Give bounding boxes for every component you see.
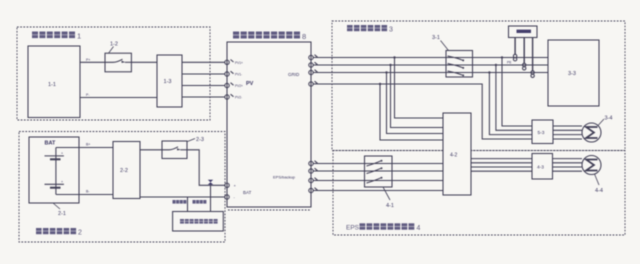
svg-text:P-: P- bbox=[86, 93, 90, 97]
EPS terminal 4 bbox=[309, 188, 318, 193]
PV terminal labels bbox=[235, 61, 243, 100]
current sensor on BAT+ wire bbox=[208, 180, 213, 185]
motor 4-4 bbox=[582, 156, 601, 175]
svg-text:1-1: 1-1 bbox=[48, 82, 56, 88]
tap junction PE to 4-2 bbox=[379, 83, 381, 85]
wire drop L2 to 3-5 bbox=[496, 65, 532, 130]
PV terminal 3 bbox=[225, 83, 234, 88]
battery cell 1 bbox=[45, 152, 64, 160]
wire battery- to 2-2 bbox=[79, 194, 113, 196]
PV simulator block 1-1 bbox=[28, 46, 80, 118]
label 1-2 with leader bbox=[109, 42, 118, 54]
module 4 label EPS应急负载接入模块4 bbox=[346, 223, 421, 232]
label 3-4 with leader bbox=[598, 116, 612, 126]
GRID terminal 1 bbox=[309, 55, 318, 60]
plug pair 2 bbox=[523, 63, 526, 70]
svg-text:+: + bbox=[61, 152, 63, 156]
grid input module 3 dashed box bbox=[332, 21, 625, 151]
svg-text:5-3: 5-3 bbox=[538, 130, 545, 136]
PV terminal 1 bbox=[225, 60, 234, 65]
svg-text:-: - bbox=[234, 195, 236, 200]
svg-text:+: + bbox=[234, 183, 237, 188]
svg-text:2: 2 bbox=[78, 230, 82, 237]
wire switch 2-3 to BAT+ terminal bbox=[187, 150, 225, 186]
EPS terminal 2 bbox=[309, 168, 318, 173]
svg-text:PV1-: PV1- bbox=[235, 73, 242, 77]
label 2-1 with leader bbox=[53, 203, 66, 217]
wire drop L2 to 4-2 bbox=[391, 65, 444, 128]
wire switch 3-1 to 3-3 L2 bbox=[473, 64, 549, 66]
svg-text:BAT: BAT bbox=[243, 190, 252, 195]
label 3-1 with leader bbox=[432, 35, 449, 51]
battery internal wire bbox=[56, 148, 79, 195]
BAT terminal - bbox=[225, 195, 236, 200]
svg-text:4-1: 4-1 bbox=[386, 203, 394, 209]
grid source lead 2 bbox=[523, 38, 525, 64]
svg-text:+: + bbox=[61, 180, 63, 184]
svg-text:EPS/backup: EPS/backup bbox=[273, 175, 296, 180]
DC converter block 1-3 bbox=[157, 55, 182, 107]
label 4-1 with leader bbox=[383, 187, 394, 209]
wire switch 4-1 to 4-2 L2 bbox=[392, 170, 443, 172]
dashed line under inverter bbox=[228, 209, 311, 211]
inverter title 被测光伏储能逆变器8 bbox=[233, 32, 306, 41]
wire 2-2 to switch 2-3 bbox=[140, 149, 162, 151]
svg-text:PV2+: PV2+ bbox=[235, 84, 243, 88]
inverter under test box bbox=[227, 42, 311, 207]
module 3 label 市网接入模块3 bbox=[347, 25, 393, 34]
plug pair 1 bbox=[513, 54, 516, 61]
wire battery+ to 2-2 bbox=[79, 147, 113, 149]
wire GRID L3 to switch 3-1 bbox=[313, 72, 446, 74]
label 电流采样 bbox=[193, 200, 207, 204]
grid source lead 3 bbox=[532, 38, 534, 71]
EPS terminal 3 bbox=[309, 178, 318, 183]
svg-text:3: 3 bbox=[389, 27, 393, 34]
svg-text:2-2: 2-2 bbox=[120, 168, 128, 174]
GRID terminal 4 bbox=[309, 81, 318, 86]
wire drop L1 to 3-5 bbox=[502, 58, 532, 127]
svg-text:PV: PV bbox=[246, 81, 254, 87]
battery pack 2-1 box bbox=[29, 137, 79, 203]
wire GRID L1 to switch 3-1 bbox=[313, 57, 446, 59]
wire 1-3 out 1 bbox=[182, 61, 225, 63]
load distribution block 4-2 bbox=[443, 113, 471, 195]
wire switch 4-1 to 4-2 L1 bbox=[392, 163, 443, 165]
label 2-3 with leader bbox=[188, 137, 204, 143]
svg-text:3-3: 3-3 bbox=[568, 71, 576, 77]
wire GRID L2 to switch 3-1 bbox=[313, 64, 446, 66]
switch 1-2 bbox=[105, 53, 131, 72]
PV input module 1 dashed box bbox=[17, 27, 210, 120]
battery cell 2 bbox=[45, 180, 64, 188]
svg-text:4: 4 bbox=[417, 225, 421, 232]
label 4-4 with leader bbox=[595, 174, 603, 194]
grid simulator block 3-3 bbox=[548, 40, 599, 106]
wire EPS L1 to switch 4-1 bbox=[313, 163, 364, 165]
wire drop PE to 4-2 bbox=[380, 84, 443, 140]
svg-text:3-1: 3-1 bbox=[432, 35, 440, 41]
wire EPS L3 to switch 4-1 bbox=[313, 180, 364, 182]
wire PV+ from 1-1 to switch 1-2 bbox=[80, 61, 105, 63]
wire EPS PE to 4-2 bbox=[313, 190, 443, 192]
svg-text:1-3: 1-3 bbox=[164, 79, 172, 85]
label texture slits bbox=[32, 28, 415, 231]
plug pair 3 bbox=[531, 71, 534, 78]
grid source box bbox=[509, 26, 538, 38]
PV terminal 4 bbox=[225, 94, 234, 99]
wire switch 4-1 to 4-2 L3 bbox=[392, 180, 443, 182]
svg-text:EPS: EPS bbox=[346, 225, 360, 232]
tap junction L1 to 4-2 bbox=[393, 56, 395, 58]
battery input module 2 dashed box bbox=[19, 132, 225, 243]
wires 5-3 to motor 3-4 bbox=[553, 126, 582, 139]
svg-text:PV2-: PV2- bbox=[235, 96, 242, 100]
module 2 label 电池接入模块2 bbox=[36, 228, 82, 237]
svg-text:PV1+: PV1+ bbox=[235, 61, 243, 65]
wire drop L3 to 3-5 bbox=[489, 73, 532, 135]
svg-text:4-3: 4-3 bbox=[537, 165, 544, 171]
EPS load module 4 dashed box bbox=[333, 151, 625, 236]
breaker box 5-3 bbox=[532, 120, 553, 144]
grid source lead 1 bbox=[514, 38, 516, 55]
wire EPS L2 to switch 4-1 bbox=[313, 170, 364, 172]
EPS terminal 1 bbox=[309, 161, 318, 166]
svg-text:P+: P+ bbox=[86, 58, 90, 62]
wire 1-3 out 2 bbox=[182, 73, 225, 75]
switch 2-3 bbox=[162, 141, 187, 159]
wire drop L1 to 4-2 bbox=[395, 58, 444, 119]
svg-text:2-1: 2-1 bbox=[58, 211, 66, 217]
GRID terminal 2 bbox=[309, 62, 318, 67]
switch 4-1 bbox=[365, 156, 393, 187]
current sample tap bbox=[210, 185, 212, 212]
wire GRID PE bbox=[313, 84, 532, 139]
svg-text:4-4: 4-4 bbox=[595, 188, 603, 194]
tap junction L3 to 4-2 bbox=[385, 71, 387, 73]
svg-text:1-2: 1-2 bbox=[110, 42, 118, 48]
grid source label bbox=[517, 30, 532, 33]
wire 1-3 out 4 bbox=[182, 96, 225, 98]
BAT terminal + bbox=[225, 183, 237, 188]
wires 4-2 to 4-3 bbox=[471, 159, 532, 172]
svg-text:PE: PE bbox=[507, 61, 512, 65]
data acquisition box bbox=[173, 212, 224, 232]
switch 3-1 bbox=[446, 51, 473, 78]
wire switch 3-1 to 3-3 L1 bbox=[473, 57, 549, 59]
wire PV- from 1-1 to 1-3 bbox=[80, 97, 157, 99]
module 1 label 光伏输入模块1 bbox=[32, 32, 81, 41]
svg-text:3-4: 3-4 bbox=[605, 116, 613, 122]
tap junction L2 to 3-5 bbox=[495, 64, 497, 66]
wire 1-3 out 3 bbox=[182, 85, 225, 87]
wire switch 1-2 to 1-3 bbox=[131, 61, 157, 63]
tap junction L2 to 4-2 bbox=[389, 64, 391, 66]
PV terminal 2 bbox=[225, 71, 234, 76]
wires 4-3 to motor 4-4 bbox=[553, 159, 583, 172]
svg-text:BAT: BAT bbox=[45, 141, 57, 147]
svg-text:8: 8 bbox=[302, 32, 306, 41]
svg-text:4-2: 4-2 bbox=[450, 153, 457, 159]
svg-text:1: 1 bbox=[77, 32, 81, 41]
svg-text:GRID: GRID bbox=[288, 72, 300, 77]
svg-text:B-: B- bbox=[86, 190, 90, 194]
label 电压采样 bbox=[173, 200, 187, 204]
svg-text:B+: B+ bbox=[86, 143, 90, 147]
wire 2-2 to BAT- terminal bbox=[140, 196, 225, 198]
tap junction L3 to 3-5 bbox=[488, 71, 490, 73]
svg-text:2-3: 2-3 bbox=[196, 137, 204, 143]
voltage sample tap bbox=[187, 197, 189, 212]
wire switch 3-1 to 3-3 L3 bbox=[473, 72, 549, 74]
breaker box 4-3 bbox=[532, 154, 553, 180]
label 数据采集与存储设备 bbox=[180, 219, 218, 224]
GRID terminal 3 bbox=[309, 70, 318, 75]
tap junction L1 to 3-5 bbox=[501, 56, 503, 58]
DC source block 2-2 bbox=[113, 142, 140, 199]
motor 3-4 bbox=[582, 123, 601, 142]
wire drop L3 to 4-2 bbox=[387, 73, 444, 134]
